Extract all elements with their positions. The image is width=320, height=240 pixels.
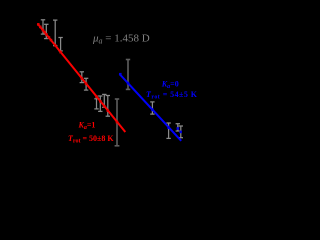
error bar B4	[176, 124, 180, 131]
error bar R8	[98, 96, 102, 111]
error bar B1 tall	[126, 60, 130, 90]
error bar R3	[53, 20, 57, 46]
error bar R1	[41, 20, 45, 34]
error bar R10	[106, 96, 110, 117]
error bar R6	[84, 78, 88, 90]
error bar R4	[58, 38, 62, 51]
fit line K_a=1 (red)	[38, 24, 126, 132]
svg-text:Ka=0: Ka=0	[161, 80, 179, 91]
data markers K_a=1 (red squares)	[37, 23, 118, 123]
error bars K_a=1 series (gray)	[41, 20, 120, 146]
error bar B2	[150, 102, 154, 114]
svg-text:Ka=1: Ka=1	[78, 120, 96, 131]
error bar B3	[166, 123, 170, 138]
error bars K_a=0 series (gray)	[126, 60, 183, 139]
error bar R9	[102, 94, 106, 107]
error bar R2	[44, 24, 48, 38]
error bar R11 tall	[115, 99, 120, 146]
data markers K_a=0 (blue squares)	[119, 73, 182, 133]
error bar R7	[94, 99, 98, 109]
error bar B5	[179, 126, 183, 138]
fit line K_a=0 (blue)	[120, 74, 182, 141]
error bar R5	[80, 72, 84, 83]
